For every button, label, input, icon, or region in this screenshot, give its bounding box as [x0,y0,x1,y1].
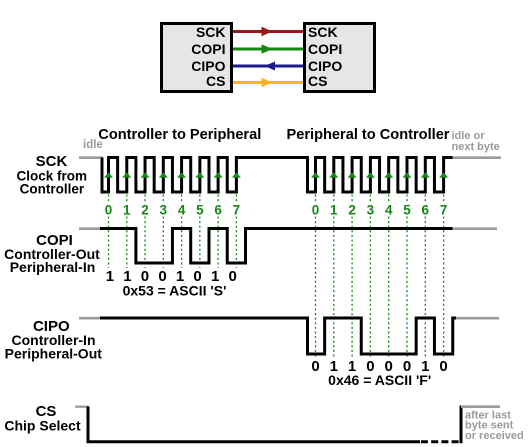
CS wire controller to peripheral [233,78,303,87]
green bit numbers byte 1 [105,203,240,218]
after last byte sent or received label [465,409,524,442]
svg-text:0x53 = ASCII 'S': 0x53 = ASCII 'S' [123,283,227,299]
svg-text:CIPO: CIPO [308,58,342,74]
svg-text:6: 6 [214,203,222,218]
COPI sublabel controller-out peripheral-in [4,246,100,275]
svg-text:CIPO: CIPO [191,58,225,74]
SCK clock waveform [102,158,453,193]
svg-text:4: 4 [385,203,393,218]
svg-text:3: 3 [367,203,375,218]
svg-text:Peripheral-In: Peripheral-In [10,259,96,275]
svg-text:5: 5 [403,203,411,218]
CS dashed continuation [421,440,459,443]
svg-text:7: 7 [440,203,448,218]
svg-text:2: 2 [141,203,149,218]
svg-text:CS: CS [308,73,327,89]
CS idle gray line right [461,405,500,408]
svg-text:Chip Select: Chip Select [4,418,81,434]
svg-text:0: 0 [312,203,320,218]
COPI bit values byte 1 [106,268,237,285]
svg-text:2: 2 [348,203,356,218]
CIPO bit values byte 2 [311,358,447,375]
svg-text:COPI: COPI [308,41,342,57]
green rising edge arrows byte 2 [311,172,448,177]
green bit numbers byte 2 [312,203,448,218]
controller box pin labels [191,24,225,89]
svg-text:SCK: SCK [196,24,226,40]
svg-text:0: 0 [311,358,319,375]
CS select waveform [88,407,420,442]
svg-text:SCK: SCK [308,24,338,40]
idle or next byte label [452,130,500,153]
peripheral box pin labels [308,24,342,89]
green rising edge arrows byte 1 [104,172,241,177]
SCK sublabel clock from controller [17,169,88,197]
CS idle gray line left [75,406,89,408]
svg-text:1: 1 [123,203,131,218]
svg-text:Controller: Controller [20,182,85,197]
svg-text:COPI: COPI [191,41,225,57]
svg-text:idle: idle [83,139,103,151]
svg-text:0: 0 [105,203,113,218]
green dashed bit sample lines byte 1 [109,195,237,269]
CIPO idle gray line right [455,317,499,320]
COPI wire controller to peripheral [233,44,303,53]
svg-text:0: 0 [229,268,237,285]
svg-text:1: 1 [330,203,338,218]
svg-text:0: 0 [439,358,447,375]
CIPO data waveform [100,318,456,354]
CIPO sublabel controller-in peripheral-out [5,332,103,362]
CIPO wire peripheral to controller [233,62,303,71]
svg-text:5: 5 [196,203,204,218]
COPI idle gray line left [79,227,102,230]
COPI data waveform [100,229,453,264]
svg-text:6: 6 [422,203,430,218]
svg-text:Peripheral to Controller: Peripheral to Controller [287,127,450,143]
CIPO idle gray line left [79,317,102,320]
svg-text:or received: or received [465,430,524,442]
svg-text:Peripheral-Out: Peripheral-Out [5,345,103,361]
SCK idle gray line left [79,156,103,159]
svg-text:3: 3 [160,203,168,218]
svg-text:next byte: next byte [452,141,500,153]
controller box [162,24,232,92]
svg-text:1: 1 [106,268,114,285]
svg-text:0x46 = ASCII 'F': 0x46 = ASCII 'F' [328,372,431,388]
SCK wire controller to peripheral [233,27,303,36]
svg-text:SCK: SCK [36,153,68,170]
green dashed bit sample lines byte 2 [316,195,444,359]
SCK idle gray line right [450,156,501,159]
svg-text:7: 7 [233,203,241,218]
svg-text:4: 4 [178,203,186,218]
svg-text:CS: CS [206,73,225,89]
svg-text:Controller to Peripheral: Controller to Peripheral [98,127,261,143]
CS rising edge after last byte [460,406,463,444]
peripheral box [305,24,375,92]
COPI idle gray line right [450,227,497,230]
